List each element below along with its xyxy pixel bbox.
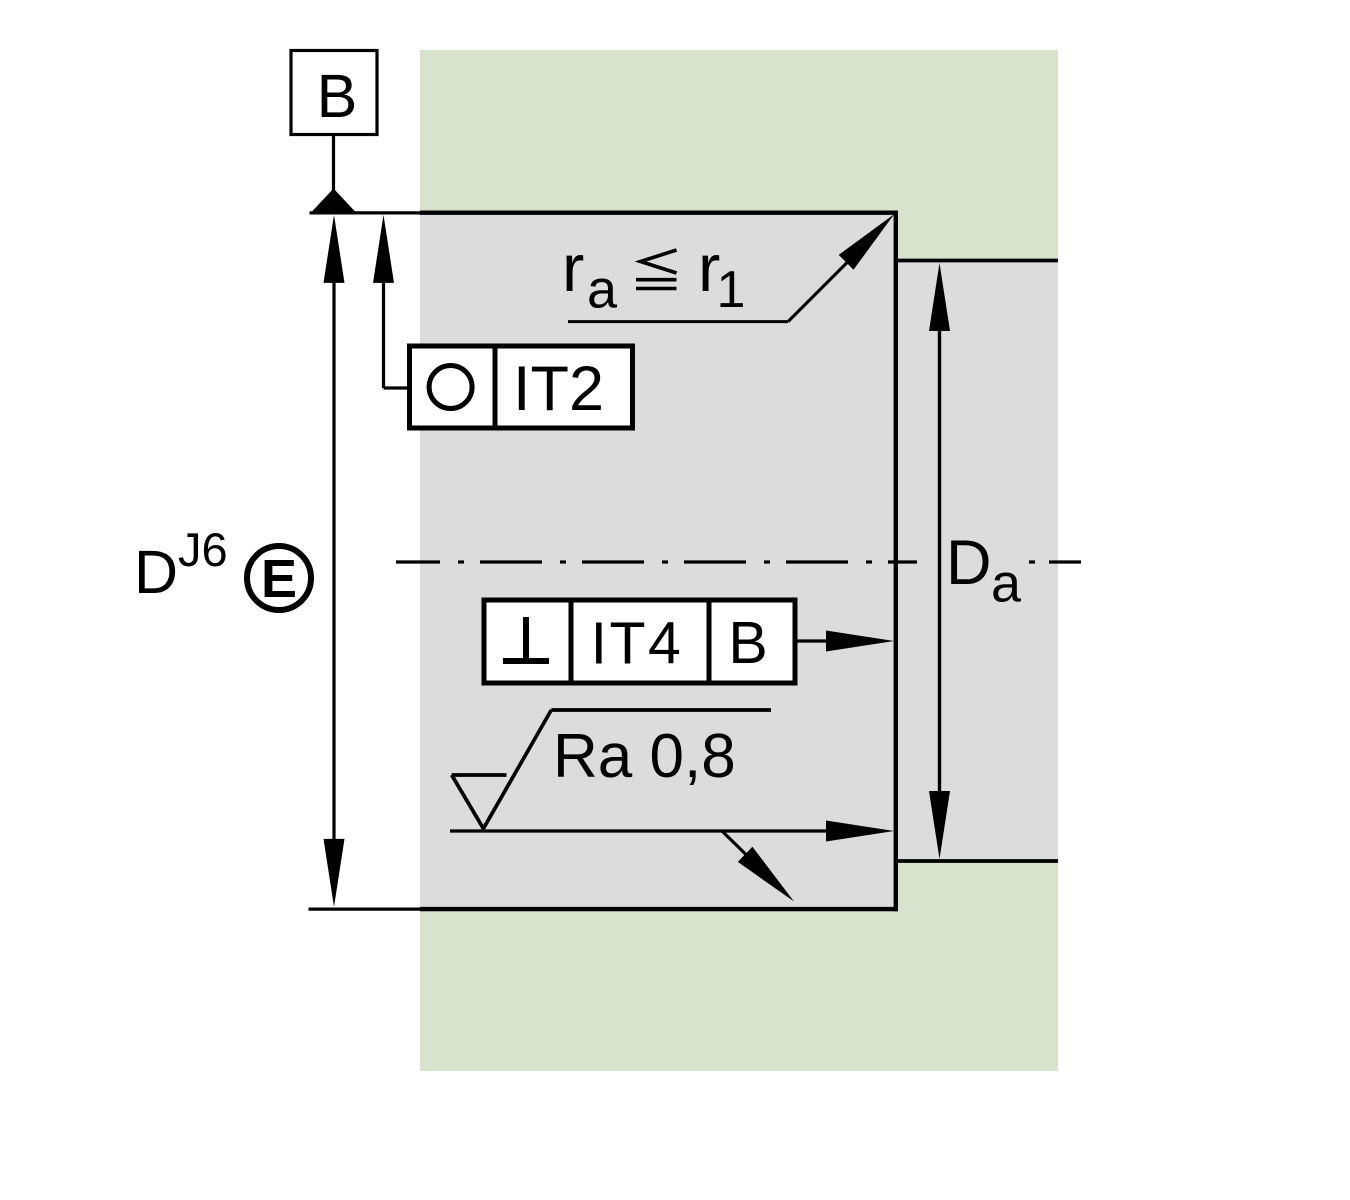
svg-text:1: 1 (717, 261, 746, 319)
bore outline: top edge (420, 210, 898, 214)
svg-text:B: B (317, 62, 358, 130)
leader of circularity frame (382, 280, 385, 388)
svg-text:r: r (562, 231, 584, 306)
bore outline: bottom edge (420, 907, 898, 911)
bottom extension line (309, 907, 421, 910)
surface roughness symbol (452, 710, 771, 829)
bore outline: right edge (894, 211, 898, 912)
svg-text:D: D (946, 528, 992, 598)
top extension line (310, 211, 421, 214)
second surface arrow to bottom face (722, 831, 748, 857)
circularity tolerance frame (410, 346, 633, 428)
r_a leader diagonal with arrow to corner (788, 261, 849, 322)
datum triangle (311, 189, 356, 213)
dimension line Da (938, 328, 941, 792)
datum B box (291, 51, 377, 135)
svg-text:D: D (134, 538, 178, 606)
frame leader arrow to right edge (795, 639, 830, 642)
svg-text:Ra 0,8: Ra 0,8 (553, 722, 736, 791)
svg-text:E: E (261, 549, 297, 609)
svg-text:a: a (991, 554, 1022, 614)
gray right shoulder section (896, 261, 1058, 862)
envelope symbol E (247, 546, 311, 610)
gray bearing outer ring section (420, 213, 896, 909)
shoulder top edge (896, 259, 1058, 263)
shoulder bottom edge (896, 859, 1058, 863)
green housing band (420, 50, 1058, 1071)
svg-text:B: B (728, 610, 767, 676)
centerline (396, 560, 1081, 563)
r_a leader underline (568, 320, 788, 323)
roughness leader line with arrow (450, 829, 830, 832)
svg-text:IT4: IT4 (591, 611, 684, 677)
perpendicularity symbol (503, 658, 549, 664)
svg-text:J6: J6 (178, 523, 228, 576)
datum leader line (332, 135, 335, 193)
svg-text:IT2: IT2 (513, 354, 604, 424)
svg-text:a: a (587, 260, 618, 320)
dimension line D (left, long) (332, 280, 335, 841)
perpendicularity tolerance frame (484, 600, 795, 683)
